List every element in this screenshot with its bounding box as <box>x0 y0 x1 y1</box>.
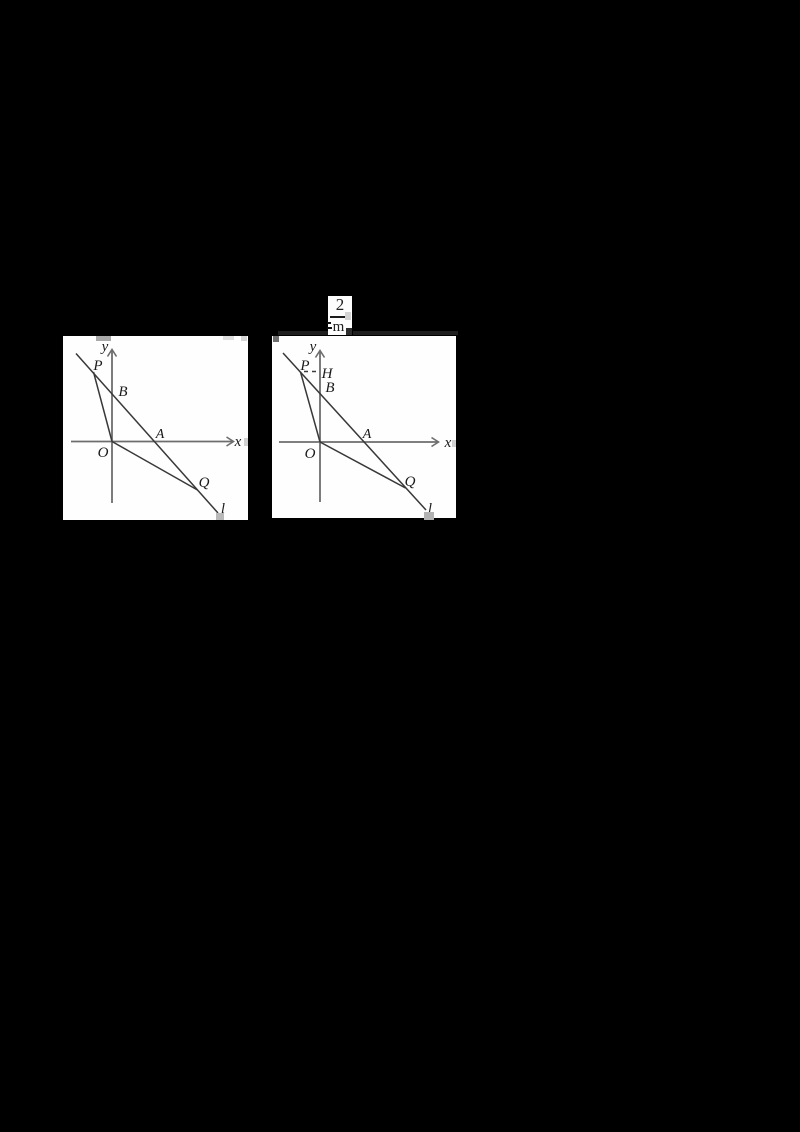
fraction bar <box>330 316 345 318</box>
svg-text:B: B <box>118 384 127 400</box>
segment OP fig1 <box>94 372 113 442</box>
segment OQ fig2 <box>320 442 406 488</box>
fraction patch 2/m <box>328 296 352 335</box>
numerator 2 <box>328 296 352 313</box>
fig2 dark corner mark top-left <box>273 336 279 342</box>
fraction gray block right of bar <box>345 312 351 320</box>
figure 2 white box <box>272 336 456 518</box>
figure 1 white box <box>63 336 248 520</box>
svg-text:B: B <box>325 380 334 396</box>
svg-text:Q: Q <box>405 474 416 490</box>
svg-text:O: O <box>305 446 316 462</box>
equals sign tips left of fraction <box>327 322 331 324</box>
svg-text:P: P <box>92 358 102 374</box>
svg-text:y: y <box>308 339 317 355</box>
comma block after m <box>346 328 352 335</box>
line l fig1 <box>76 354 218 514</box>
svg-text:y: y <box>100 339 109 355</box>
x-axis fig1 <box>71 441 233 443</box>
segment OP fig2 <box>301 372 321 442</box>
y-axis fig1 <box>111 350 113 503</box>
y-axis fig2 <box>319 351 321 502</box>
x-axis fig2 <box>279 441 438 443</box>
dashed segment PH fig2 <box>304 371 319 373</box>
segment OQ fig1 <box>112 442 198 491</box>
svg-text:A: A <box>155 427 165 442</box>
svg-text:P: P <box>299 358 309 374</box>
svg-text:O: O <box>98 445 109 461</box>
faint scan smudge above figure 2 <box>278 331 328 335</box>
denominator m <box>329 320 348 335</box>
svg-text:x: x <box>444 435 452 451</box>
fig2 right-edge mark at x-axis <box>452 440 456 447</box>
line l fig2 <box>283 353 426 510</box>
fig1 bottom gray square <box>216 513 224 520</box>
svg-text:A: A <box>362 427 372 442</box>
svg-text:x: x <box>234 434 242 450</box>
svg-text:Q: Q <box>199 475 210 491</box>
fig2 bottom gray square <box>424 512 434 520</box>
fig1 right-edge mark at x-axis <box>244 438 248 446</box>
fig1 light marks top right <box>223 336 234 340</box>
fig1 gray artifact top <box>96 336 111 341</box>
